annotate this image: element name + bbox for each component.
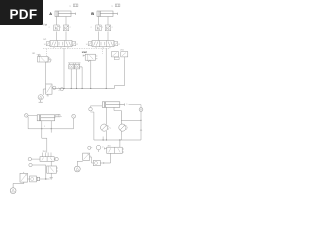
svg-text:2: 2 [102,27,103,29]
svg-text:2: 2 [51,59,52,61]
valve 4V1 5/2 [105,147,125,153]
gauge 4Z3 [88,146,92,149]
trademark symbol [43,23,48,28]
limit roller circle 3S2 [72,114,76,118]
wire sensing line [121,119,141,121]
valve 3V2 3/2 [47,166,58,173]
wire 4V1 left port down [103,153,110,163]
wire 3V1 down to 3V2 [50,161,52,166]
svg-text:a: a [126,103,128,105]
wire roller drop to bus [27,117,29,129]
junction dots on link [103,139,121,140]
supply bus line [53,87,115,89]
svg-text:+0: +0 [102,146,104,148]
svg-text:12: 12 [76,44,78,46]
filter 3Z3 [28,176,40,182]
wire 4V3 stub [120,135,122,140]
PDF badge overlay [0,0,43,25]
cylinder 3A [37,115,55,121]
svg-text:1: 1 [110,128,111,130]
dashed drop to valve 1S2 [45,49,47,57]
limit roller 4S2 [139,108,143,112]
cylinder 2A [97,11,118,17]
wire 2S1 to supply bus [115,60,125,89]
wire 4A left port down [106,107,108,124]
wire 1V2 to valve 1V1 [56,32,58,41]
marker ruler above cylinder 1A [70,4,78,7]
flow control 4V2 [101,124,112,140]
shuttle valve 1V4 [68,63,81,69]
svg-text:0Z: 0Z [47,96,49,98]
bus line bottom-left [28,128,73,130]
pilot circle 3V1 right [54,157,58,160]
valve 3V1 5/2 piloted [40,157,54,162]
svg-text:a: a [70,5,72,7]
wire riser valve 2V1 to supply bus [105,48,107,88]
label start [82,50,87,54]
junction dots bottom-left bus [41,128,52,129]
wire 2V3 to valve 2V1 [107,32,109,41]
svg-text:14: 14 [86,44,88,46]
marker ruler above cylinder 2A [112,4,120,7]
svg-text:2: 2 [70,27,71,29]
svg-text:2: 2 [91,27,92,29]
limit roller circle 3S1 [25,114,29,118]
wire filter to exhaust tee [40,178,50,179]
wire 3A left port down [41,121,43,129]
flow control 1V3 [63,25,68,31]
label 2S1 [120,50,123,52]
wire 2V2 to valve 2V1 [98,32,100,41]
flow control 2V2 [96,25,101,31]
wire 1V3 to valve 1V1 [65,32,67,41]
shuttle valve 1V5 [75,63,82,69]
junction dots on supply bus [63,88,106,89]
gauge 4Z1 [96,145,103,152]
svg-text:2: 2 [60,27,61,29]
wire 2A right port [107,17,109,26]
svg-text:12: 12 [118,44,120,46]
valve 2V1 5/2 [86,41,120,49]
flow control 1V2 [54,25,59,31]
wire gauge 4S1 to cylinder [91,105,103,107]
svg-text:a: a [61,116,63,118]
svg-text:a: a [112,5,114,7]
marker label cylinder 4A [126,103,128,105]
label 2V2 [91,27,113,29]
gauge 4S1 [89,106,93,111]
label 4V1 [108,146,111,148]
compressor 4Z5 [74,161,82,172]
wire shuttle 1V4 to bus [70,69,72,89]
cylinder 1A [55,11,76,17]
label B [91,12,94,16]
svg-text:2S1: 2S1 [120,50,123,52]
regulator gauge 0Z2 [52,86,56,89]
label 1V2 [49,27,71,29]
wire 1A left port [56,17,58,26]
label 3V1 [43,151,46,153]
wire link to valve 4V1 [119,140,121,147]
svg-text:2: 2 [49,27,50,29]
valve 1S2 limit switch [37,54,53,62]
wire rod to roller 4S2 [129,105,142,108]
svg-text:1S2: 1S2 [32,53,35,55]
wire roller 4S2 down [140,111,141,120]
stub up at junction [102,137,104,141]
wire jog down to valve 3V1 [42,129,47,153]
wire 3A right port down [50,121,52,129]
wire 4A right port down [114,107,121,124]
cylinder 4A [102,102,124,108]
gauge 4Z6 [74,171,76,173]
svg-text:start: start [82,50,87,54]
gauge 3Z2 [29,163,32,166]
label 0Z1 [47,96,49,98]
svg-text:14: 14 [44,44,46,46]
label A [49,12,52,16]
wire start valve to supply bus [90,60,92,88]
wire 1A right port [65,17,67,26]
valve 3V1 port stubs [43,153,52,157]
wire shuttle 1V5 to bus [76,69,78,89]
flow control 2V3 [105,25,110,31]
wire riser valve 1V1 to supply bus [63,48,65,88]
wire drop stub [50,129,52,133]
svg-text:A: A [49,12,52,16]
wire left sensing vertical [91,112,94,140]
svg-text:3: 3 [44,126,45,128]
wire gauge 3Z2 tee [32,165,46,179]
label 1S2 [32,53,35,55]
filter 4Z4 [93,160,103,165]
flow control 4V3 [119,124,128,135]
valve start 3/2 push button [83,54,97,62]
dashed drop to start valve [102,49,104,54]
pilot circle 3V1 left [28,157,40,160]
svg-text:B: B [91,12,94,16]
compressor 0Z3 [38,89,43,102]
wire 2A left port [98,17,100,26]
svg-text:1V1: 1V1 [43,39,46,41]
marker ruler right of 3A [56,114,63,118]
wire roller to cylinder 3A [28,114,37,116]
wire 1S2 down to service unit [45,62,47,84]
compressor 3Z4 [10,182,24,193]
dashed signal line [43,48,110,50]
wire 3S2 drop to bus [73,118,75,129]
valve 2S1 limit switch pair [112,52,128,60]
regulator 4Z2 [83,153,92,160]
service unit 0Z1 [43,84,52,96]
svg-text:2: 2 [112,27,113,29]
exhaust of 3V2 [50,173,53,179]
check valve in supply bus [59,88,64,91]
regulator 3Z1 [20,172,28,182]
wire link horizontal [94,139,141,141]
valve 1V1 5/2 [44,41,78,49]
wire regulator to filter [90,157,94,163]
label 3S2 [44,126,45,128]
wire shuttle right port to bus [80,67,82,89]
label 1V1 [43,39,46,41]
svg-text:1: 1 [81,66,82,68]
wire roller 4S2 tail to link [140,120,142,140]
